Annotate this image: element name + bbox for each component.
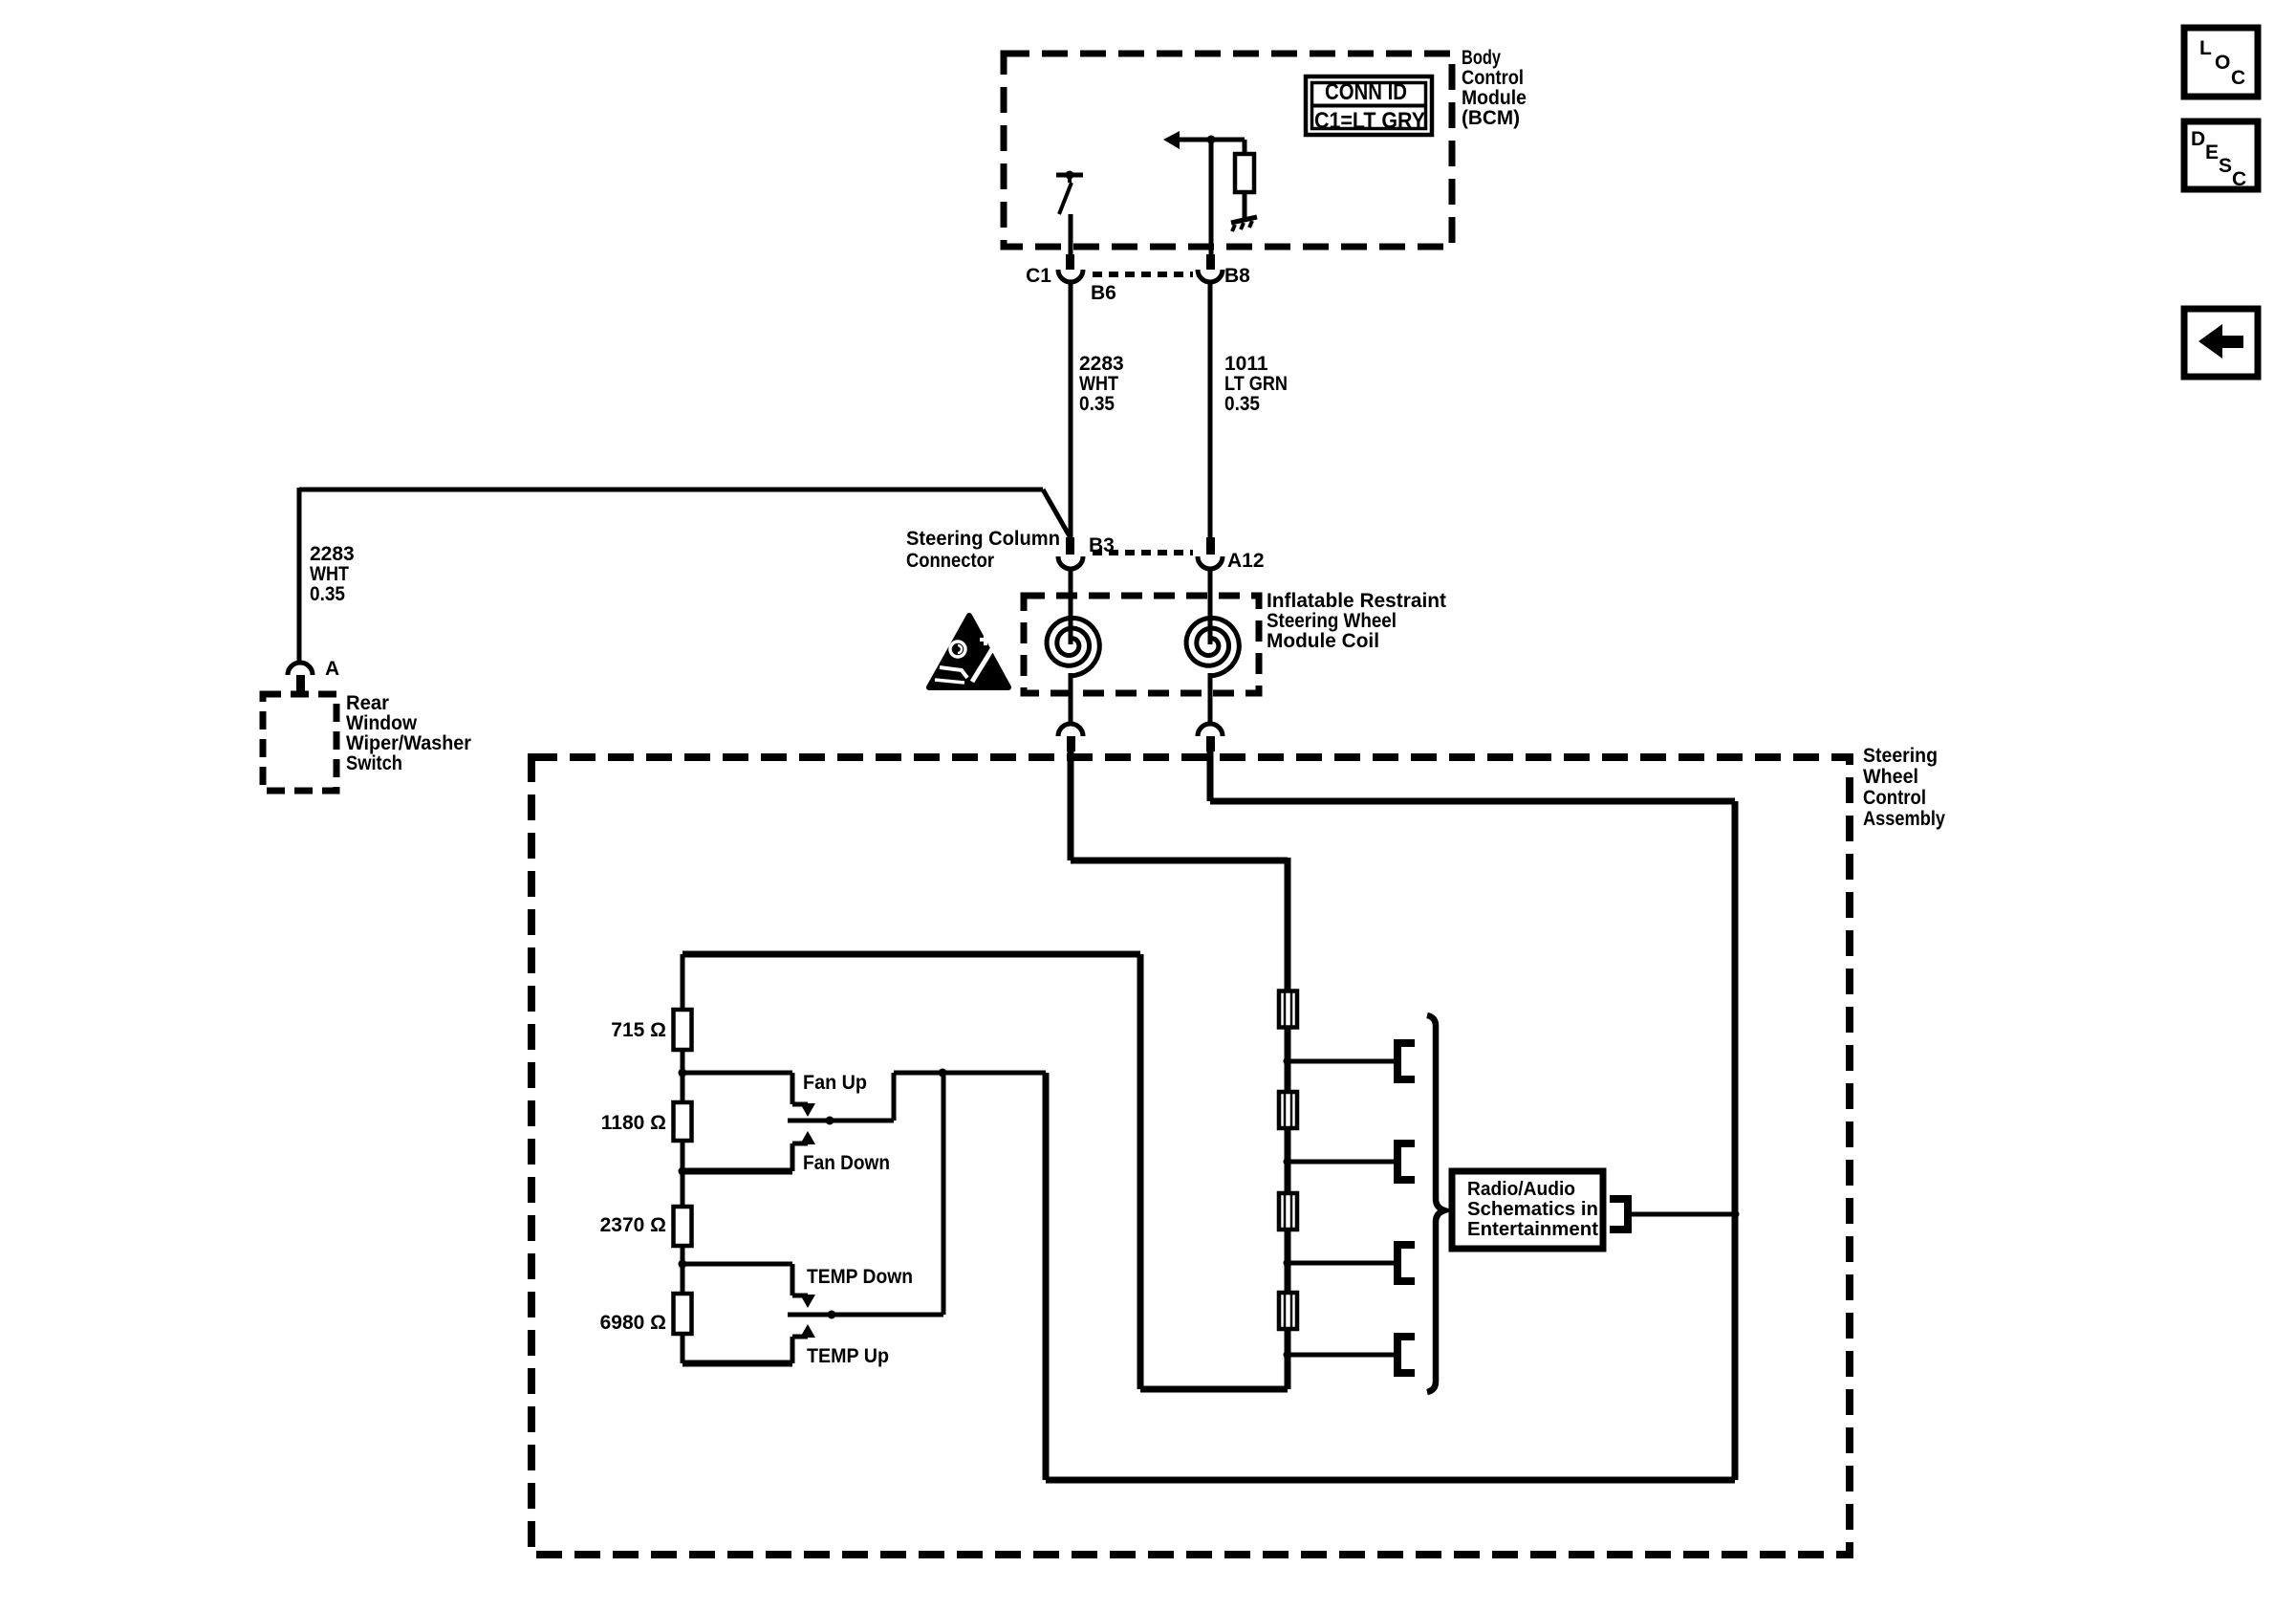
brace grouping pins [1427, 1015, 1444, 1392]
wire: right net into assembly [1207, 751, 1214, 801]
label: Steering Wheel Control Assembly [1863, 745, 1945, 830]
connector pin C1 (BCM) [1066, 254, 1074, 270]
svg-text:LT GRN: LT GRN [1224, 373, 1288, 395]
TEMP Up switch fixed contact [682, 1324, 815, 1363]
wire: switch output to riser [942, 1071, 1046, 1076]
wire: circuit 2283 WHT down [1069, 281, 1073, 537]
Fan Down switch fixed contact [682, 1131, 815, 1171]
svg-text:Module: Module [1462, 87, 1527, 109]
resistor 6980 ohm [674, 1294, 692, 1334]
svg-text:6980 Ω: 6980 Ω [600, 1312, 666, 1334]
switch inside BCM [1056, 171, 1083, 215]
resistor 715 ohm [674, 1010, 692, 1050]
wire: ladder segment R2-R3 [681, 1141, 685, 1207]
label: B8 [1224, 265, 1250, 287]
dashed connector line B3-A12 [1093, 550, 1193, 555]
dashed connector line C1-B8 [1093, 272, 1193, 277]
label: Rear Window Wiper/Washer Switch [346, 692, 471, 774]
junction node 1 on chain [1284, 1057, 1292, 1066]
svg-text:C: C [2231, 67, 2245, 89]
wire out of right coil [1208, 673, 1213, 723]
clockspring coil right [1186, 618, 1239, 676]
wire: branch 1 to pin [1288, 1059, 1394, 1064]
connector pin bracket right of radio box [1610, 1195, 1628, 1233]
svg-text:Body: Body [1462, 47, 1501, 69]
inline connector (fuse) 3 on signal chain [1279, 1193, 1297, 1230]
label: B3 [1089, 534, 1115, 556]
svg-text:Schematics in: Schematics in [1467, 1199, 1598, 1220]
svg-text:C: C [2232, 168, 2246, 190]
svg-text:L: L [2199, 37, 2212, 59]
connector B8 terminal arc [1198, 270, 1223, 282]
wire: ladder segment above R1 [681, 954, 685, 1010]
wire: switch net riser [1043, 1073, 1050, 1480]
junction node 4 on chain [1284, 1351, 1292, 1360]
wire: chain segment 4 [1285, 1330, 1291, 1389]
connector pin bracket 3 [1394, 1245, 1415, 1281]
wire into right coil [1208, 570, 1213, 644]
Radio/Audio Schematics in Entertainment box [1452, 1171, 1603, 1249]
connector C1/B6 terminal arc [1058, 270, 1083, 282]
TEMP Down switch fixed contact [682, 1264, 815, 1308]
wire: resistor ladder top feed [682, 951, 1140, 958]
label: 1180 ohm [601, 1112, 666, 1134]
label: 2283 WHT 0.35 (center) [1079, 353, 1124, 415]
LOC icon box [2184, 28, 2258, 97]
signal arrow inside BCM [1163, 131, 1245, 149]
svg-text:Module Coil: Module Coil [1267, 630, 1379, 652]
label: Inflatable Restraint Steering Wheel Module Coil [1267, 590, 1446, 652]
junction node on temp common [828, 1311, 836, 1319]
Fan switch common contact [788, 1073, 942, 1121]
wire: bottom run of switch net [1046, 1477, 1735, 1484]
connector pin bracket 2 [1394, 1143, 1415, 1180]
resistor inside BCM [1235, 140, 1254, 218]
svg-text:0.35: 0.35 [1079, 393, 1115, 415]
wire: chain segment 1 [1285, 1026, 1291, 1091]
wire: chain segment 3 [1285, 1230, 1291, 1292]
svg-text:715 Ω: 715 Ω [611, 1019, 666, 1041]
junction node ladder J1 [679, 1069, 687, 1078]
CONN ID table [1306, 76, 1432, 135]
wire: ladder bottom to TEMP Up [681, 1334, 685, 1363]
connector pin A12 [1206, 537, 1215, 555]
svg-text:Steering Wheel: Steering Wheel [1267, 610, 1397, 632]
connector B3 terminal arc [1058, 556, 1083, 569]
svg-text:O: O [2215, 52, 2230, 74]
svg-text:Fan Up: Fan Up [803, 1072, 867, 1094]
svg-text:Steering Column: Steering Column [906, 528, 1060, 550]
connector A pin [296, 675, 305, 692]
Rear Window Wiper/Washer Switch dashed box [263, 694, 336, 791]
label: 715 ohm [611, 1019, 666, 1041]
wire: diagonal into steering column connector B3 [1043, 490, 1070, 536]
resistor 2370 ohm [674, 1207, 692, 1246]
svg-text:C1: C1 [1026, 265, 1051, 287]
wire: branch 3 to pin [1288, 1261, 1394, 1266]
wire: circuit 1011 LT GRN down [1208, 281, 1213, 537]
wire out of left coil [1069, 673, 1073, 723]
wire: radio pin to right net [1632, 1212, 1735, 1217]
svg-text:A12: A12 [1227, 550, 1265, 572]
wire: node to B8 pin [1209, 140, 1214, 254]
svg-text:0.35: 0.35 [1224, 393, 1260, 415]
label: 2370 ohm [600, 1214, 666, 1236]
wire: branch 2 to pin [1288, 1160, 1394, 1165]
svg-text:A: A [325, 658, 339, 680]
airbag warning triangle [929, 616, 1008, 687]
connector A12 terminal arc [1198, 556, 1223, 569]
wire: switch to C1 pin [1069, 214, 1073, 254]
svg-text:2283: 2283 [1079, 353, 1124, 375]
svg-text:1011: 1011 [1224, 353, 1268, 375]
label: 1011 LT GRN 0.35 [1224, 353, 1288, 415]
svg-text:CONN ID: CONN ID [1325, 79, 1407, 105]
Steering Wheel Control Assembly dashed box [531, 757, 1850, 1555]
svg-text:Connector: Connector [906, 550, 994, 572]
label: Steering Column Connector [906, 528, 1060, 572]
wire: right net across top [1210, 798, 1735, 805]
junction node fan/temp output [939, 1069, 947, 1078]
lower right pin below coil [1206, 736, 1215, 751]
wire: left net into assembly [1068, 751, 1074, 860]
lower left terminal arc below coil [1058, 724, 1083, 736]
svg-text:Control: Control [1863, 787, 1926, 809]
connector pin bracket 4 [1394, 1337, 1415, 1373]
ground symbol in BCM [1231, 217, 1257, 231]
svg-text:Wiper/Washer: Wiper/Washer [346, 732, 471, 754]
label: Fan Up [803, 1072, 867, 1094]
svg-text:Rear: Rear [346, 692, 389, 714]
junction node ladder J3 [679, 1260, 687, 1269]
svg-text:0.35: 0.35 [310, 583, 345, 605]
svg-text:(BCM): (BCM) [1462, 107, 1520, 129]
svg-text:Switch: Switch [346, 752, 402, 774]
TEMP switch common contact [788, 1073, 943, 1315]
DESC icon box [2184, 121, 2258, 190]
svg-text:1180 Ω: 1180 Ω [601, 1112, 666, 1134]
wire: across to fuse chain [1071, 858, 1288, 992]
svg-text:E: E [2205, 142, 2219, 163]
Inflatable Restraint Steering Wheel Module Coil dashed box [1024, 596, 1259, 693]
svg-text:2283: 2283 [310, 543, 355, 565]
svg-text:B6: B6 [1091, 282, 1116, 304]
lower right terminal arc below coil [1198, 724, 1223, 736]
connector pin B3 [1066, 537, 1074, 555]
Fan Up switch fixed contact [682, 1073, 815, 1117]
wire: ladder segment R3-R4 [681, 1246, 685, 1294]
wire: fuse chain bottom link [1140, 1386, 1288, 1393]
wire: left branch horizontal 2283 WHT [299, 488, 1043, 662]
back arrow icon box [2184, 309, 2258, 377]
svg-text:Inflatable Restraint: Inflatable Restraint [1267, 590, 1446, 612]
junction node ladder J2 [679, 1167, 687, 1176]
svg-text:TEMP Down: TEMP Down [807, 1266, 913, 1288]
wire: branch 4 to pin [1288, 1353, 1394, 1358]
svg-text:Fan Down: Fan Down [803, 1152, 890, 1174]
label: C1 [1026, 265, 1051, 287]
junction node 3 on chain [1284, 1259, 1292, 1268]
svg-text:Control: Control [1462, 67, 1524, 89]
inline connector (fuse) 2 on signal chain [1279, 1092, 1297, 1128]
label: Radio/Audio Schematics in Entertainment [1467, 1179, 1598, 1240]
label: B6 [1091, 282, 1116, 304]
inline connector (fuse) 4 on signal chain [1279, 1293, 1297, 1329]
wire: chain segment 2 [1285, 1129, 1291, 1192]
svg-text:WHT: WHT [310, 563, 349, 585]
svg-text:Assembly: Assembly [1863, 808, 1945, 830]
svg-text:B8: B8 [1224, 265, 1250, 287]
label: Body Control Module (BCM) [1462, 47, 1527, 129]
label: A [325, 658, 339, 680]
svg-text:C1=LT GRY: C1=LT GRY [1314, 108, 1425, 134]
wire: right net down right side [1732, 801, 1739, 1480]
lower left pin below coil [1067, 736, 1075, 751]
label: A12 [1227, 550, 1265, 572]
inline connector (fuse) 1 on signal chain [1279, 991, 1297, 1028]
wire into left coil [1069, 570, 1073, 644]
svg-text:Steering: Steering [1863, 745, 1938, 767]
junction node 2 on chain [1284, 1158, 1292, 1166]
connector pin B8 (BCM) [1206, 254, 1215, 270]
svg-text:D: D [2191, 128, 2205, 150]
svg-text:Wheel: Wheel [1863, 766, 1918, 788]
wire: ladder segment R1-R2 [681, 1050, 685, 1102]
resistor 1180 ohm [674, 1102, 692, 1141]
svg-text:Entertainment: Entertainment [1467, 1219, 1598, 1240]
label: 2283 WHT 0.35 (left) [310, 543, 355, 605]
junction node on right net [1731, 1210, 1740, 1219]
label: 6980 ohm [600, 1312, 666, 1334]
clockspring coil left [1047, 618, 1099, 676]
svg-text:WHT: WHT [1079, 373, 1118, 395]
label: Fan Down [803, 1152, 890, 1174]
svg-text:TEMP Up: TEMP Up [807, 1345, 889, 1367]
junction node in BCM [1207, 136, 1216, 144]
label: TEMP Down [807, 1266, 913, 1288]
connector A terminal arc [288, 663, 313, 675]
svg-text:S: S [2219, 155, 2232, 177]
Body Control Module dashed box [1004, 54, 1452, 247]
svg-text:2370 Ω: 2370 Ω [600, 1214, 666, 1236]
junction node on fan common [826, 1117, 834, 1125]
connector pin bracket 1 [1394, 1043, 1415, 1079]
svg-text:Window: Window [346, 712, 418, 734]
wire: fuse chain return riser [1137, 954, 1144, 1389]
svg-text:Radio/Audio: Radio/Audio [1467, 1179, 1575, 1200]
label: TEMP Up [807, 1345, 889, 1367]
